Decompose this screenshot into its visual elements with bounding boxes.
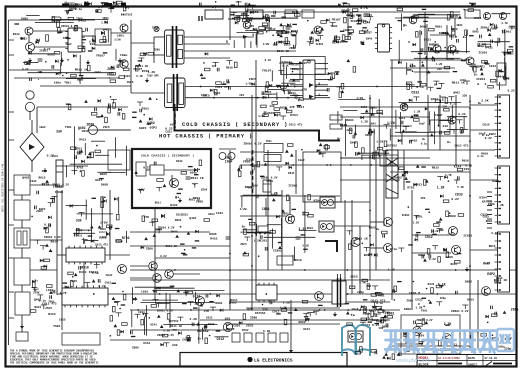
wire long bus 270 (130, 269, 516, 271)
wire IC801 right pin 6 (318, 89, 328, 91)
thermistor TH851 (219, 153, 226, 160)
svg-text:C912: C912 (95, 71, 102, 74)
wire T802 right leads (184, 87, 186, 105)
svg-text:1: 1 (318, 94, 320, 98)
chassis boundary thick line (175, 104, 341, 141)
labels right of T851 (350, 274, 390, 326)
watermark character 4 (440, 331, 456, 353)
top mid labels (235, 10, 299, 31)
parts left of IC801 box (200, 52, 255, 95)
bottom mid labels (242, 302, 310, 333)
wire bus 180 (340, 179, 400, 181)
left mid parts (71, 145, 104, 179)
svg-text:T601: T601 (142, 107, 150, 111)
sub box labels (407, 319, 459, 352)
IC IC103 (62, 286, 108, 308)
labels left of T801 (134, 48, 161, 78)
svg-text:1.2K: 1.2K (388, 269, 395, 272)
dashed chassis divider below boundary (252, 150, 254, 196)
capacitor C836 (226, 237, 231, 239)
wire T801 sec1 (184, 36, 254, 38)
labels sec rect area (258, 105, 304, 126)
svg-text:C912: C912 (361, 106, 368, 109)
svg-text:R801: R801 (435, 26, 442, 29)
wire IC801 left pin 5 (290, 84, 300, 86)
wire AC live top (9, 19, 96, 21)
wire chain 5 (21, 315, 23, 332)
wire vertical 155 (154, 208, 156, 300)
svg-text:2SC5: 2SC5 (249, 78, 256, 81)
svg-text:KIA4: KIA4 (479, 196, 487, 200)
wire chain right 2 (30, 239, 62, 241)
IC571 body (150, 165, 164, 175)
wire IC801 left pin 4 (290, 79, 300, 81)
transistor Q571 (170, 179, 179, 188)
svg-text:10uF: 10uF (39, 126, 46, 129)
svg-text:C912: C912 (216, 212, 223, 215)
wire IC801 right pin 2 (318, 68, 328, 70)
svg-text:R611 1K: R611 1K (355, 237, 368, 241)
mid-left lower labels (144, 213, 218, 258)
wire secondary bus (185, 97, 330, 99)
wire vertical 352 (351, 200, 353, 294)
svg-text:47K: 47K (247, 307, 253, 311)
svg-text:ZD601 6.2V: ZD601 6.2V (244, 142, 262, 145)
wire vertical 428 (427, 95, 429, 150)
wire bus 320 (200, 319, 390, 321)
wire opto1 right (335, 201, 370, 203)
wire bus 172 (390, 171, 470, 173)
resistor R108 (100, 40, 106, 43)
top mid parts 2 (307, 17, 367, 45)
line filter LF101 (89, 126, 98, 135)
parts left chain gap (30, 199, 54, 312)
svg-text:ZD80: ZD80 (448, 214, 456, 218)
svg-text:10uF: 10uF (225, 160, 233, 164)
svg-text:B+: B+ (434, 83, 438, 86)
wire T801 left drop (153, 37, 155, 63)
ground G3 (118, 58, 122, 63)
svg-text:ZD80: ZD80 (107, 67, 115, 71)
wire into T801 (131, 42, 154, 44)
svg-text:0.22: 0.22 (485, 137, 492, 140)
svg-text:220p: 220p (347, 129, 354, 132)
svg-text:T601: T601 (421, 310, 428, 313)
wire LF out (88, 129, 130, 131)
wire vertical 412 (411, 190, 413, 310)
svg-text:Q402: Q402 (22, 177, 29, 180)
watermark character 3 (422, 331, 438, 353)
top edge parts D (469, 2, 476, 7)
svg-text:C912: C912 (105, 281, 112, 284)
svg-text:D611: D611 (155, 201, 162, 204)
svg-text:C605: C605 (409, 291, 417, 295)
svg-text:R433: R433 (48, 312, 56, 316)
svg-text:ZD80: ZD80 (407, 300, 414, 303)
parts 110-130 bottom (110, 283, 128, 336)
diode D801 (266, 18, 270, 22)
svg-text:10uF: 10uF (351, 308, 358, 311)
relay boxes below border top-mid (199, 10, 263, 21)
transistor Q851 (223, 322, 232, 331)
transformer T102 (14, 258, 30, 285)
wire bus 107 right (340, 106, 470, 108)
svg-text:R702: R702 (291, 29, 299, 33)
wire 78 (14, 77, 120, 79)
wire bridge bottom (31, 161, 33, 172)
svg-text:2SC5: 2SC5 (511, 308, 519, 312)
svg-text:B+: B+ (198, 338, 202, 341)
line filter LF102 (14, 175, 30, 195)
svg-text:16V: 16V (239, 94, 244, 97)
svg-text:16V: 16V (37, 71, 42, 74)
wire IC801 right pin 1 (318, 63, 328, 65)
svg-text:1.2K: 1.2K (376, 140, 383, 143)
canned part row4 (268, 333, 276, 342)
svg-text:FR107: FR107 (342, 9, 351, 13)
svg-text:R702: R702 (77, 166, 84, 169)
IC503 body (380, 155, 398, 166)
svg-text:0.22: 0.22 (429, 258, 436, 261)
svg-text:EGP20D: EGP20D (99, 231, 108, 234)
labels near Q510 (416, 215, 458, 265)
wire to Q103 (111, 32, 131, 34)
IC801 left parts (262, 61, 300, 99)
IC801 labels (262, 59, 307, 102)
svg-text:47K: 47K (302, 88, 308, 92)
svg-text:T601: T601 (266, 180, 273, 183)
top edge labels A (67, 2, 119, 11)
wire bus 302 (230, 301, 390, 303)
wire q510 (412, 234, 448, 236)
svg-text:330: 330 (172, 343, 178, 347)
svg-text:www.jdwx.info: www.jdwx.info (395, 358, 431, 364)
svg-text:2SC5: 2SC5 (267, 112, 274, 115)
labels row 90 (411, 79, 466, 95)
svg-text:0.1u: 0.1u (390, 247, 398, 251)
svg-text:1N41: 1N41 (350, 142, 357, 145)
parts near Q510 (415, 222, 447, 262)
wire q803 up (289, 197, 291, 214)
chassis boundary lower thick mark (325, 241, 337, 252)
AC terminal block (62, 333, 100, 345)
svg-text:C833: C833 (455, 192, 463, 196)
notes text block (10, 350, 99, 365)
transistor Q921 (413, 327, 422, 336)
bottom-left mid labels (132, 295, 241, 350)
wire B+ bus (185, 86, 420, 88)
svg-text:T601: T601 (65, 126, 72, 129)
svg-text:330: 330 (194, 303, 199, 306)
wire vertical 392 (391, 60, 393, 300)
wire mid vertical 256 (255, 60, 257, 300)
wire inset 3 (171, 175, 173, 187)
svg-text:R801: R801 (418, 254, 425, 257)
svg-text:C912: C912 (30, 180, 37, 183)
svg-text:R801: R801 (307, 227, 314, 230)
wire vertical 384 (383, 150, 385, 226)
inductor L803 (255, 232, 270, 234)
wire to CN902b (470, 129, 497, 131)
svg-text:C613 473: C613 473 (95, 244, 108, 247)
svg-text:1N41: 1N41 (235, 16, 242, 19)
svg-text:THE CRITICAL COMPONENTS IN THI: THE CRITICAL COMPONENTS IN THIS PANEL MA… (10, 361, 99, 364)
svg-text:EGP2: EGP2 (476, 65, 483, 68)
svg-text:2SC5: 2SC5 (350, 274, 358, 278)
svg-text:Q402: Q402 (189, 217, 196, 220)
wire bus 280 (130, 279, 390, 281)
watermark book logo (342, 325, 370, 356)
wire vertical 370 (369, 95, 371, 280)
wire T801 sec4 (184, 57, 230, 59)
IC KIA431 (277, 256, 293, 265)
svg-text:D611: D611 (474, 17, 481, 20)
parts row 90 (406, 81, 470, 91)
svg-text:T601: T601 (378, 295, 385, 298)
transistor Q903 (500, 13, 507, 20)
wire bus 246 (130, 245, 230, 247)
svg-text:2SC5: 2SC5 (284, 43, 291, 46)
transistor Q513 (384, 244, 393, 253)
svg-text:2.2K: 2.2K (432, 230, 439, 233)
wire left vertical bus (8, 20, 10, 345)
svg-text:B+: B+ (121, 13, 125, 16)
svg-text:C833: C833 (289, 92, 296, 95)
ground G4 (86, 60, 90, 65)
svg-text:R702: R702 (142, 69, 150, 73)
svg-text:C833: C833 (411, 91, 419, 95)
svg-text:R910: R910 (81, 266, 89, 270)
ferrite bead FB801 (154, 26, 159, 31)
capacitor C838 electrolytic (263, 180, 271, 192)
wire IC801 right pin 3 (318, 73, 328, 75)
svg-text:KIA4: KIA4 (201, 189, 208, 192)
svg-text:C833: C833 (343, 29, 350, 32)
diode D803 (161, 214, 165, 218)
mid right labels B (394, 160, 472, 190)
wire to CN904 (470, 249, 497, 251)
ground bottom mid (289, 348, 293, 353)
parts 395-465 lower (398, 245, 461, 263)
resistor R103 (57, 21, 60, 27)
transistor Q501 (400, 103, 408, 111)
wire vertical 296 (295, 150, 297, 194)
svg-text:KIA4: KIA4 (365, 134, 372, 137)
connector CN901 (497, 63, 506, 85)
svg-text:100u: 100u (190, 172, 197, 175)
svg-text:R801: R801 (387, 311, 395, 315)
svg-text:1.2K: 1.2K (437, 186, 445, 190)
labels bottom mid-left extra (141, 288, 215, 342)
svg-text:2.2K: 2.2K (33, 291, 40, 294)
labels above PC851 (360, 302, 389, 328)
wire IC801 left pin 7 (290, 95, 300, 97)
parts below border top-left (65, 8, 115, 15)
resistor R571 (157, 179, 163, 182)
bottom mid parts (239, 300, 323, 324)
labels near IC802 (341, 6, 373, 41)
svg-text:R611 1K: R611 1K (277, 50, 289, 53)
regulator mesh (395, 103, 468, 145)
vertical hatched regulator (386, 150, 398, 198)
bottom right parts (393, 281, 468, 309)
svg-text:COLD CHASSIS ( SECONDARY ): COLD CHASSIS ( SECONDARY ) (141, 154, 194, 158)
svg-text:D611: D611 (95, 179, 102, 182)
svg-text:220p: 220p (292, 68, 299, 71)
wire vertical 345 (344, 200, 346, 294)
svg-text:LG ELECTRONICS: LG ELECTRONICS (254, 357, 293, 363)
svg-text:1.2K: 1.2K (436, 63, 443, 66)
svg-text:KIA4: KIA4 (454, 164, 462, 168)
svg-text:ZD80: ZD80 (404, 308, 411, 311)
wire vertical 478 (477, 280, 479, 350)
wire bridge top (31, 120, 33, 133)
svg-text:2SC5: 2SC5 (251, 10, 259, 14)
svg-text:C912: C912 (399, 117, 406, 120)
svg-text:C613 473: C613 473 (371, 298, 386, 302)
svg-text:R801: R801 (193, 196, 201, 200)
wire Q102-Q101 (28, 35, 30, 43)
svg-text:100u: 100u (370, 106, 377, 109)
wire bus 150 right (395, 149, 495, 151)
labels top right core (409, 24, 463, 71)
svg-text:B+: B+ (175, 196, 179, 200)
svg-text:ZD601 6.2V: ZD601 6.2V (261, 177, 278, 180)
svg-text:R910: R910 (295, 259, 302, 262)
wire vertical 440 (439, 95, 441, 150)
arrow marks with pin numbers (226, 34, 321, 98)
svg-text:47K: 47K (156, 288, 161, 291)
parts right of IC103 (112, 291, 126, 328)
svg-text:220p: 220p (357, 291, 364, 294)
svg-text:C912: C912 (272, 311, 279, 314)
wire vertical top mid (229, 8, 231, 40)
transistor Q502 (448, 116, 456, 124)
transistor Q512 (384, 218, 393, 227)
wire to CN903 (470, 179, 497, 181)
svg-text:Q402: Q402 (431, 98, 438, 101)
transformer T802 core and windings (165, 74, 186, 111)
watermark character 6 (478, 331, 495, 353)
svg-text:COLD CHASSIS ( SECONDARY ): COLD CHASSIS ( SECONDARY ) (182, 122, 288, 128)
svg-text:C833: C833 (415, 299, 422, 302)
bottom-left mid mesh (132, 287, 229, 344)
IC504 body (430, 120, 450, 132)
ground T802 (145, 78, 149, 83)
ground left column (20, 324, 24, 329)
CN904 labels (483, 231, 507, 283)
transistor Q922 (443, 334, 452, 343)
wire T851 top pin (337, 274, 339, 281)
wire IC801 left pin 2 (290, 68, 300, 70)
svg-text:0.22: 0.22 (22, 68, 29, 71)
transistor Q905 (466, 57, 474, 65)
svg-text:D802: D802 (369, 227, 376, 230)
wire U101 out (82, 35, 95, 37)
transistor Q923 (482, 287, 491, 296)
regulator labels (399, 95, 469, 148)
svg-text:ZD601 6.2V: ZD601 6.2V (158, 227, 175, 230)
labels near bridge (47, 130, 89, 158)
svg-text:C815: C815 (483, 124, 490, 127)
svg-text:T802 SMR: T802 SMR (147, 75, 159, 78)
svg-text:FR107: FR107 (96, 55, 105, 58)
svg-text:4.7K: 4.7K (491, 231, 499, 235)
wire IC801 right pin 4 (318, 79, 328, 81)
svg-text:4.7K: 4.7K (359, 281, 366, 284)
wire vertical q901b (419, 30, 421, 55)
parts 340-390 bottom (345, 302, 386, 325)
svg-text:BLOCK: BLOCK (419, 363, 430, 367)
wire vertical 470 (469, 95, 471, 350)
connector CN902 (495, 95, 510, 158)
labels left chain gap (35, 208, 67, 328)
svg-text:B+: B+ (403, 24, 407, 28)
svg-text:IC801: IC801 (288, 185, 297, 188)
wire T801 pin2 (154, 54, 165, 56)
svg-text:0.22: 0.22 (44, 223, 51, 226)
svg-text:B+: B+ (337, 137, 341, 141)
svg-text:5.1K: 5.1K (362, 30, 369, 33)
svg-text:1/2W: 1/2W (258, 114, 265, 118)
wire bus 232 (130, 231, 210, 233)
right bottom parts (471, 306, 507, 341)
svg-text:100u: 100u (54, 81, 61, 84)
svg-text:D802: D802 (486, 220, 493, 223)
svg-text:47K: 47K (289, 106, 295, 109)
top mid labels 2 (314, 18, 370, 46)
svg-text:KIA4: KIA4 (143, 342, 150, 345)
connector CN904 (495, 232, 510, 292)
socket SK101 (26, 91, 34, 99)
opto-coupler PC802 (319, 221, 334, 232)
svg-text:L601: L601 (46, 289, 53, 292)
filter FB803 (258, 226, 268, 232)
svg-text:R433: R433 (415, 184, 422, 187)
wire Q102 to U101 (33, 30, 68, 32)
wire vertical 447 (446, 25, 448, 60)
wire sockets join (29, 111, 31, 120)
watermark character 2 (403, 331, 419, 353)
svg-text:D605: D605 (21, 18, 28, 21)
svg-text:R611 1K: R611 1K (170, 325, 182, 328)
wire AC input bus (37, 106, 128, 108)
transistor Q104 (120, 60, 128, 68)
ground bridge (43, 168, 47, 173)
transistor Q906 (433, 45, 441, 53)
wire inset 1 (146, 169, 150, 171)
header J2 (330, 124, 342, 129)
watermark character 5 (459, 331, 476, 353)
svg-text:4.7K: 4.7K (60, 292, 67, 295)
snubber parts top mid (230, 11, 300, 35)
svg-text:R433: R433 (176, 160, 183, 163)
svg-text:ZD80: ZD80 (87, 123, 95, 127)
svg-text:R611 1K: R611 1K (191, 176, 204, 180)
error amp labels (240, 191, 321, 262)
wire vertical 282 (281, 190, 283, 270)
svg-text:D605: D605 (473, 31, 480, 34)
svg-text:R433: R433 (170, 204, 177, 207)
relay RL101 (16, 332, 28, 341)
svg-text:5.1K: 5.1K (465, 165, 472, 168)
wire to Q512 (370, 221, 383, 223)
wire th to ptc (240, 151, 264, 153)
wire 216 (240, 215, 286, 217)
watermark character 1 (385, 331, 401, 353)
svg-text:R815: R815 (467, 299, 474, 302)
canned part row5 (280, 333, 288, 342)
